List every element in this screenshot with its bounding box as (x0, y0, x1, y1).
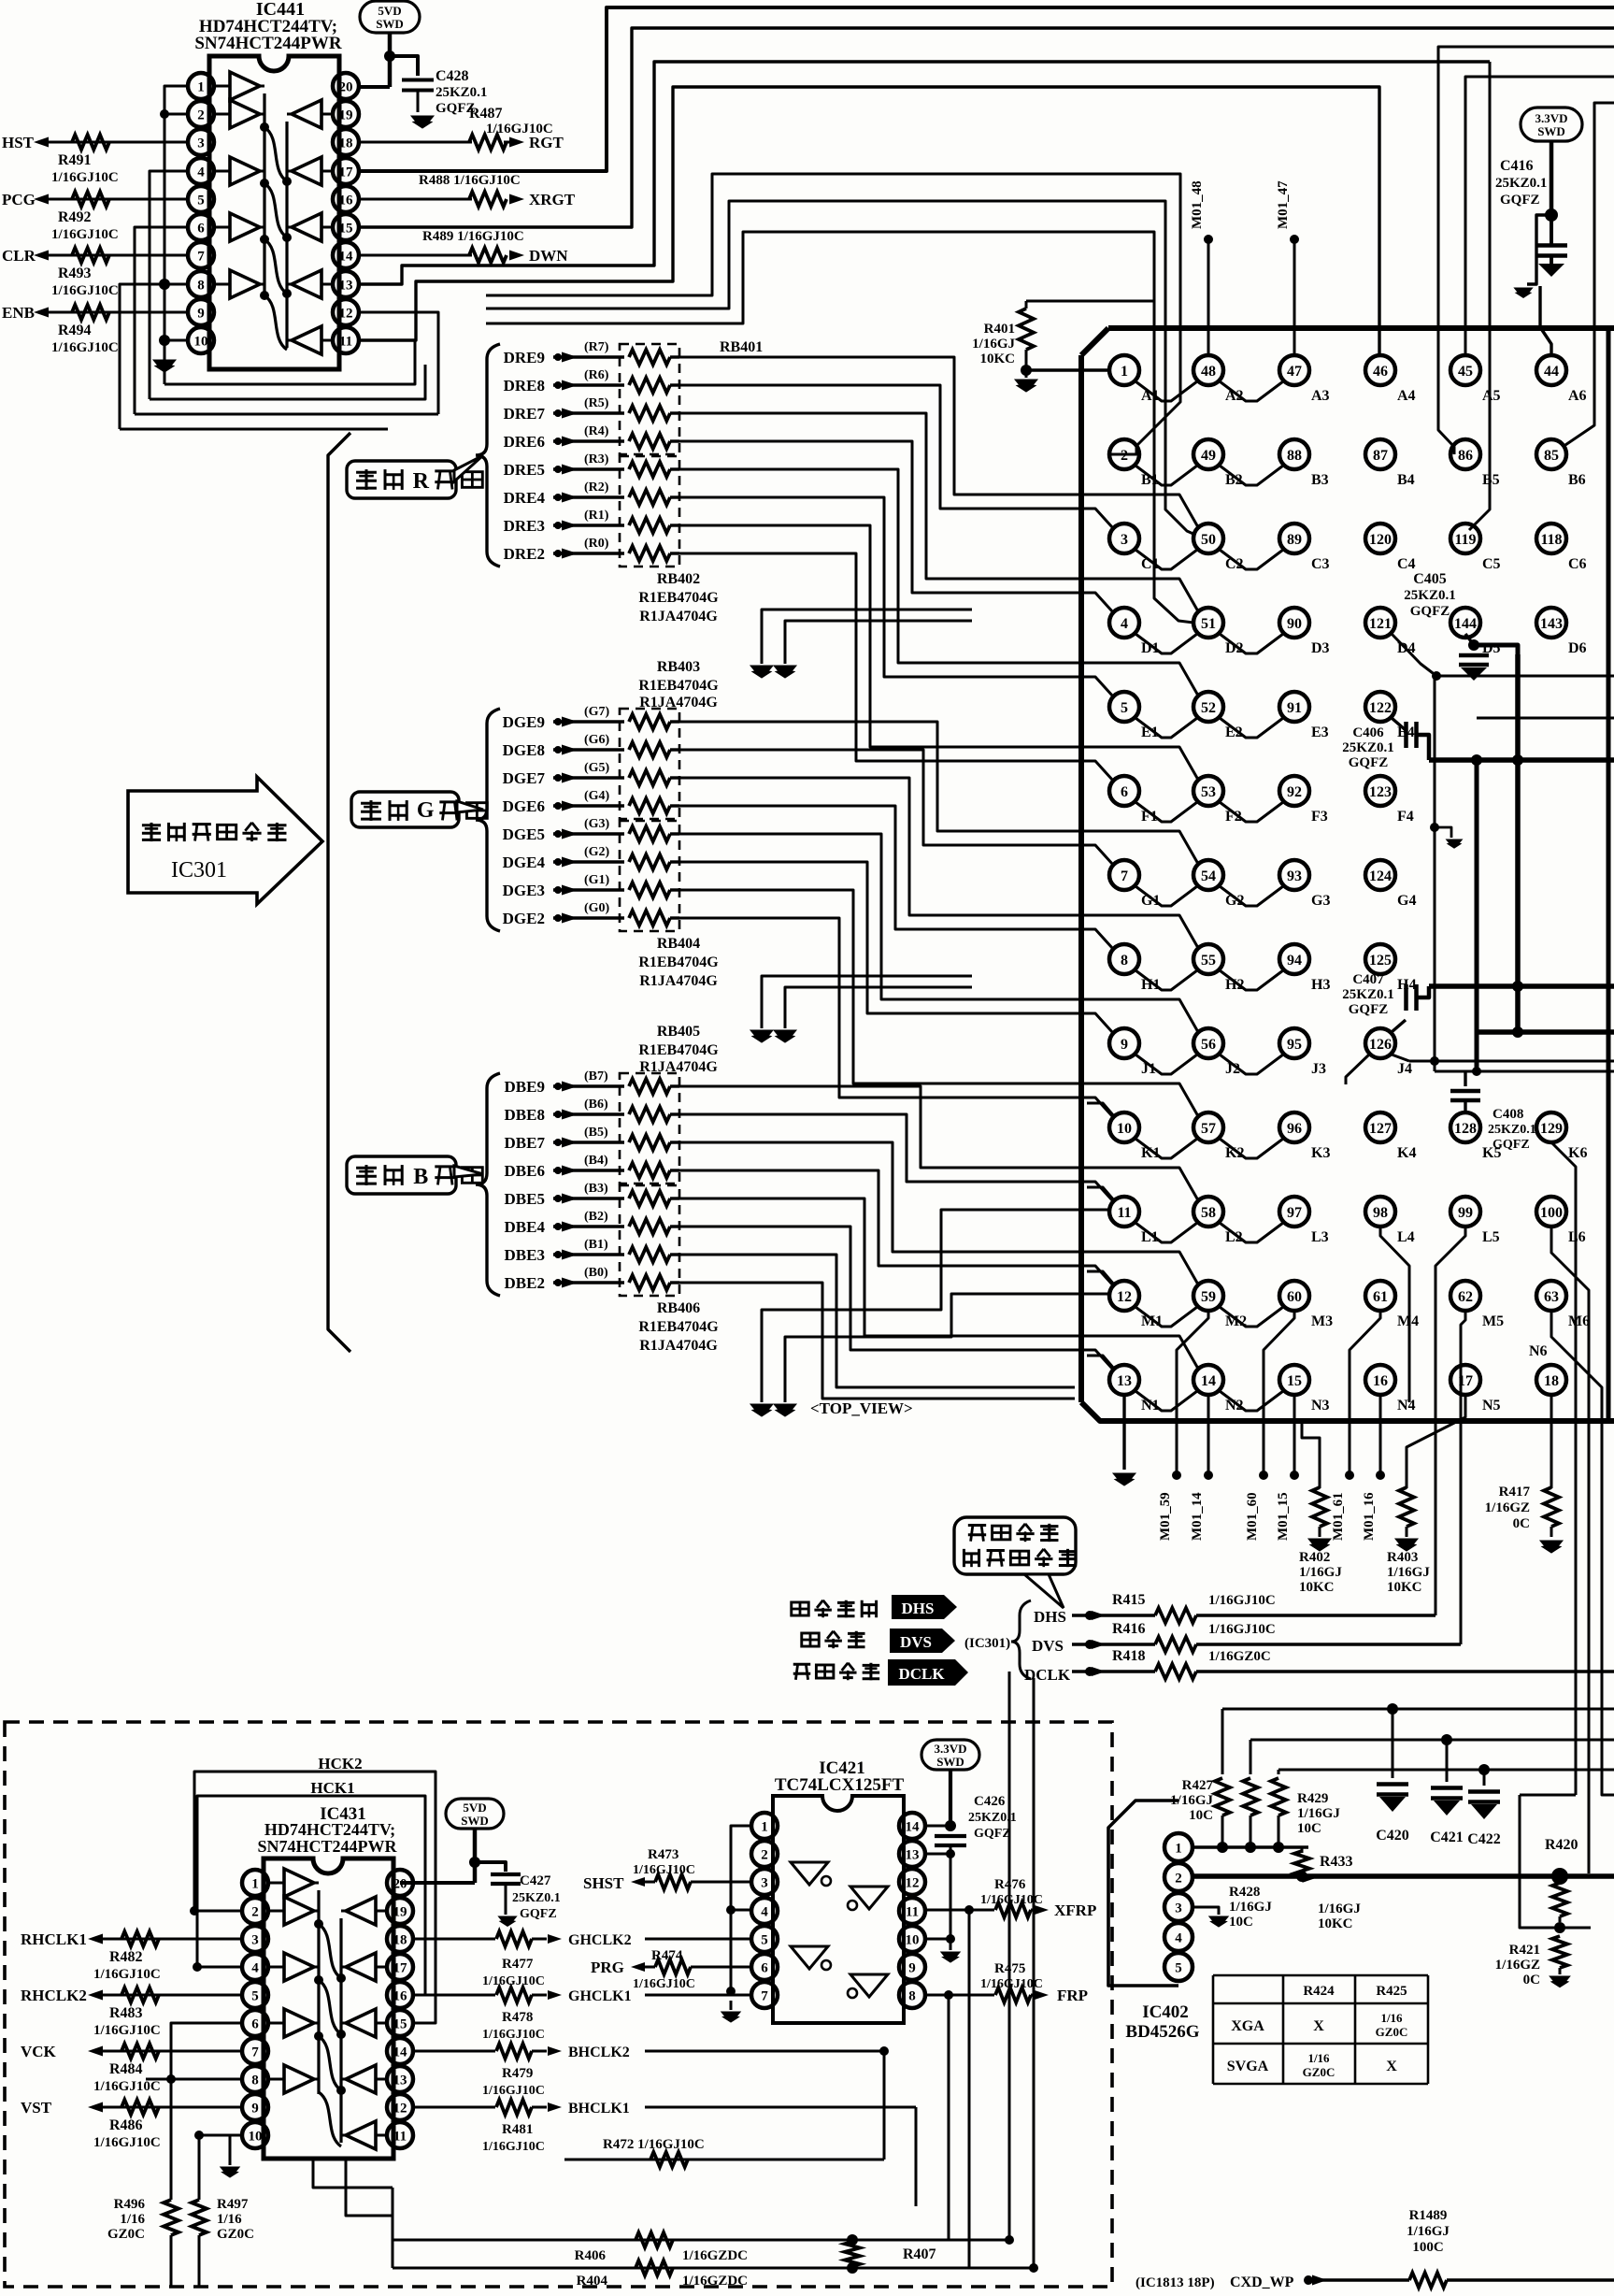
bus corner y82 to A5 (1465, 77, 1614, 356)
svg-text:8: 8 (908, 1988, 916, 2003)
IC431 pin 13 (387, 2066, 413, 2092)
svg-text:R493: R493 (58, 265, 92, 281)
rail line y1146 (1435, 1070, 1614, 1073)
svg-text:R478: R478 (502, 2010, 533, 2025)
connector pin 57 (K2) (1193, 1112, 1223, 1142)
svg-text:52: 52 (1201, 700, 1216, 716)
IC441 pin 17 (333, 158, 359, 184)
resistor RB405/406 element 6 (629, 1219, 670, 1234)
svg-text:RB406: RB406 (657, 1300, 700, 1316)
IC421 pin 1 (751, 1813, 778, 1839)
svg-text:3: 3 (761, 1875, 768, 1890)
svg-text:M01_16: M01_16 (1362, 1492, 1377, 1541)
svg-text:(R3): (R3) (584, 452, 609, 466)
svg-text:95: 95 (1287, 1037, 1302, 1053)
resistor RB405/406 element 5 (629, 1191, 670, 1206)
net BHCLK2 row / resistor R479 (414, 2050, 495, 2053)
svg-text:F4: F4 (1397, 809, 1414, 825)
svg-text:12: 12 (906, 1875, 920, 1890)
resistor R486 (121, 2100, 159, 2115)
svg-text:61: 61 (1373, 1289, 1388, 1305)
wire to A6 (1540, 286, 1551, 356)
svg-text:58: 58 (1201, 1205, 1216, 1221)
svg-text:8: 8 (197, 278, 205, 293)
IC431 pin 1 (242, 1870, 268, 1896)
IC431 pin 8 (242, 2066, 268, 2092)
svg-text:119: 119 (1454, 532, 1476, 548)
svg-text:25KZ0.1: 25KZ0.1 (1404, 588, 1455, 603)
connector pin 2 (B1) (1109, 439, 1139, 469)
svg-text:(G6): (G6) (584, 733, 610, 747)
bus line pin15 to top right (359, 28, 1614, 227)
IC441 pin 12 (333, 299, 359, 325)
connector pin 124 (G4) (1365, 860, 1395, 890)
svg-text:R496: R496 (114, 2197, 146, 2212)
brace DHS group (1011, 1600, 1031, 1679)
IC431 internal rails (317, 1890, 320, 2094)
svg-text:C3: C3 (1311, 556, 1330, 572)
capacitor C426 + 3.3VD wire (949, 1770, 952, 1826)
svg-text:5VD: 5VD (463, 1801, 486, 1815)
svg-text:10: 10 (194, 334, 208, 349)
capacitor C420 (1392, 1709, 1394, 1778)
svg-text:127: 127 (1369, 1121, 1392, 1137)
connector pin 60 (M3) (1279, 1281, 1309, 1311)
svg-text:C4: C4 (1397, 556, 1416, 572)
net M01_59 wire (1177, 1311, 1208, 1475)
IC402 pin 1 (1164, 1833, 1193, 1861)
IC431 pin 15 (387, 2010, 413, 2036)
svg-text:R473: R473 (648, 1847, 678, 1862)
svg-text:R1EB4704G: R1EB4704G (638, 678, 719, 694)
wire L4 M4 down (1380, 1227, 1409, 1402)
svg-text:2: 2 (1121, 448, 1128, 464)
svg-text:53: 53 (1201, 784, 1216, 800)
connector pin 129 (K6) (1536, 1112, 1566, 1142)
vertical x1535 service (1434, 676, 1436, 1071)
connector pin 47 (A3) (1279, 355, 1309, 385)
svg-text:10C: 10C (1297, 1821, 1321, 1836)
svg-text:25KZ0.1: 25KZ0.1 (436, 85, 487, 100)
IC441 pin 11 (333, 327, 359, 353)
connector pin 125 (H4) (1365, 944, 1395, 974)
svg-text:(IC301): (IC301) (964, 1636, 1010, 1651)
svg-text:BHCLK1: BHCLK1 (568, 2101, 630, 2117)
capacitor C408 (1464, 1071, 1466, 1086)
net M01_15 wire (1293, 1395, 1296, 1475)
svg-text:RHCLK1: RHCLK1 (21, 1930, 87, 1948)
svg-text:99: 99 (1458, 1205, 1473, 1221)
grid col1 entry stubs (1087, 1103, 1114, 1116)
svg-text:14: 14 (393, 2045, 408, 2059)
connector pin 86 (B5) (1450, 439, 1480, 469)
gnd hook pair above B group (762, 976, 972, 1028)
net R472 row (564, 2159, 884, 2161)
capacitor C422 (1483, 1770, 1486, 1786)
resistor R421 (1552, 1936, 1567, 1968)
svg-text:10KC: 10KC (980, 352, 1016, 366)
callout box digital B signal (347, 1156, 456, 1194)
svg-text:6: 6 (1121, 784, 1128, 800)
svg-text:R416: R416 (1112, 1621, 1146, 1637)
svg-text:N5: N5 (1482, 1398, 1501, 1413)
power 5VD SWD (IC431) (446, 1799, 504, 1829)
flag DCLK (888, 1659, 968, 1686)
wire M5 to DVS corner (1461, 1311, 1465, 1644)
resistor R492 (72, 192, 109, 207)
svg-text:R474: R474 (651, 1948, 683, 1963)
connector pin 51 (D2) (1193, 608, 1223, 638)
balloon callout sync label (954, 1517, 1076, 1574)
svg-text:85: 85 (1544, 448, 1559, 464)
connector pin 14 (N2) (1193, 1365, 1223, 1395)
connector pin 122 (E4) (1365, 692, 1395, 722)
svg-text:3: 3 (1121, 532, 1128, 548)
svg-text:DCLK: DCLK (1024, 1666, 1071, 1684)
gnd hook pair above G group (762, 610, 972, 664)
svg-text:M01_59: M01_59 (1158, 1492, 1173, 1541)
connector pin 63 (M6) (1536, 1281, 1566, 1311)
label digital signal CJK (792, 1602, 808, 1615)
svg-text:(B4): (B4) (584, 1154, 608, 1168)
net GHCLK1 to IC421 (645, 1994, 751, 1997)
svg-text:57: 57 (1201, 1121, 1216, 1137)
svg-text:R491: R491 (58, 152, 92, 168)
svg-text:1: 1 (1121, 364, 1128, 380)
svg-text:R420: R420 (1545, 1837, 1578, 1853)
svg-text:DBE9: DBE9 (505, 1078, 545, 1096)
svg-text:1/16GJ10C: 1/16GJ10C (1208, 1622, 1276, 1637)
callout pointer G (457, 801, 483, 812)
wire x1594 down to C5 (1469, 62, 1490, 530)
resistor RB403/404 element 4 (629, 798, 670, 813)
wire M6 down (1551, 1311, 1614, 1795)
svg-text:R425: R425 (1376, 1984, 1407, 1999)
svg-text:R482: R482 (109, 1949, 143, 1965)
svg-text:A6: A6 (1568, 388, 1587, 404)
balloon tail (1024, 1574, 1064, 1608)
connector pin 92 (F3) (1279, 776, 1309, 806)
svg-text:GZ0C: GZ0C (217, 2227, 254, 2242)
svg-text:14: 14 (1201, 1373, 1216, 1389)
svg-text:SWD: SWD (461, 1814, 489, 1828)
svg-text:HCK1: HCK1 (310, 1779, 354, 1797)
svg-text:2: 2 (761, 1847, 768, 1862)
IC441 pin 16 (333, 186, 359, 212)
connector pin 126 (J4) (1365, 1028, 1395, 1058)
svg-text:HD74HCT244TV;: HD74HCT244TV; (264, 1820, 395, 1839)
IC441 pin 6 (188, 214, 214, 240)
svg-text:10KC: 10KC (1387, 1580, 1422, 1595)
svg-text:F3: F3 (1311, 809, 1328, 825)
net M01_60 wire (1264, 1311, 1294, 1475)
svg-text:97: 97 (1287, 1205, 1302, 1221)
table R424/R425 (1213, 1974, 1428, 1977)
svg-text:PRG: PRG (591, 1959, 624, 1976)
svg-text:5: 5 (1175, 1960, 1182, 1975)
IC421 buffers (791, 1862, 828, 1885)
svg-text:RB402: RB402 (657, 571, 700, 587)
svg-text:8: 8 (1121, 953, 1128, 969)
IC431 pin 7 (242, 2038, 268, 2064)
svg-text:M01_60: M01_60 (1245, 1492, 1260, 1541)
svg-text:86: 86 (1458, 448, 1473, 464)
resistor RB401/402 element 8 (629, 546, 670, 561)
vertical heavy x1580 (1475, 760, 1479, 1071)
svg-text:9: 9 (251, 2101, 259, 2116)
connector pin 123 (F4) (1365, 776, 1395, 806)
capacitor C416 (1550, 141, 1554, 215)
svg-text:1: 1 (761, 1819, 768, 1834)
svg-text:1/16GJ: 1/16GJ (1299, 1565, 1342, 1580)
svg-text:DRE4: DRE4 (504, 489, 546, 507)
svg-text:25KZ0.1: 25KZ0.1 (1342, 987, 1393, 1002)
svg-text:BD4526G: BD4526G (1125, 2022, 1199, 2042)
net M01_47 wire (1293, 239, 1296, 355)
connector pin 90 (D3) (1279, 608, 1309, 638)
resistor RB403/404 element 7 (629, 883, 670, 897)
IC421 body (773, 1796, 904, 2023)
IC431 pin 10 (242, 2122, 268, 2148)
svg-text:13: 13 (393, 2073, 407, 2088)
svg-text:18: 18 (393, 1932, 407, 1947)
svg-text:XRGT: XRGT (529, 191, 576, 208)
IC421 pin 2 (751, 1841, 778, 1867)
net FRP / resistor R475 (925, 1994, 994, 1997)
svg-text:C422: C422 (1467, 1831, 1501, 1847)
svg-text:R477: R477 (502, 1957, 534, 1972)
svg-text:C408: C408 (1493, 1107, 1523, 1122)
net XFRP / resistor R476 (925, 1909, 994, 1912)
svg-text:89: 89 (1287, 532, 1302, 548)
svg-text:1/16GJ: 1/16GJ (1229, 1900, 1272, 1915)
svg-text:C421: C421 (1430, 1830, 1464, 1845)
svg-text:R407: R407 (903, 2246, 936, 2262)
connector pin 58 (L2) (1193, 1197, 1223, 1227)
svg-text:R1EB4704G: R1EB4704G (638, 590, 719, 606)
svg-text:144: 144 (1454, 616, 1477, 632)
svg-text:GQFZ: GQFZ (974, 1827, 1011, 1841)
svg-text:7: 7 (1121, 868, 1128, 884)
rail heavy y813 (1429, 757, 1614, 763)
svg-text:R486: R486 (109, 2117, 143, 2133)
svg-text:1/16GJ10C: 1/16GJ10C (93, 2135, 161, 2150)
wire pin12 to nest (359, 312, 438, 414)
svg-text:5: 5 (251, 1988, 259, 2003)
svg-text:143: 143 (1540, 616, 1563, 632)
svg-text:SWD: SWD (1537, 124, 1565, 138)
svg-text:(B5): (B5) (584, 1126, 608, 1140)
connector pin 55 (H2) (1193, 944, 1223, 974)
svg-text:K6: K6 (1568, 1145, 1587, 1161)
svg-text:(B0): (B0) (584, 1266, 608, 1280)
svg-text:15: 15 (1287, 1373, 1302, 1389)
connector heavy outline right (1607, 328, 1611, 1421)
resistor RB401/402 element 7 (629, 518, 670, 533)
callout pointer B (454, 1166, 483, 1177)
svg-text:46: 46 (1373, 364, 1388, 380)
svg-text:DGE6: DGE6 (503, 797, 545, 815)
svg-text:1: 1 (1175, 1841, 1182, 1856)
svg-text:1/16GJ10C: 1/16GJ10C (633, 1863, 695, 1877)
svg-text:5: 5 (197, 193, 205, 208)
svg-text:6: 6 (761, 1960, 768, 1975)
svg-text:3: 3 (251, 1932, 259, 1947)
resistor RB403/404 element 5 (629, 826, 670, 841)
resistor R403 (1407, 1395, 1465, 1488)
connector pin 96 (K3) (1279, 1112, 1309, 1142)
svg-text:16: 16 (1373, 1373, 1388, 1389)
svg-text:C407: C407 (1352, 972, 1384, 987)
svg-text:1: 1 (251, 1876, 259, 1891)
svg-text:1/16GJ10C: 1/16GJ10C (486, 122, 553, 136)
rail line y723 (1432, 671, 1441, 681)
net M01_14 wire (1207, 1395, 1210, 1475)
connector pin 144 (D5) (1450, 608, 1480, 638)
svg-text:(B2): (B2) (584, 1210, 608, 1224)
brace RB401/402 (476, 344, 500, 567)
svg-text:1/16GZDC: 1/16GZDC (682, 2274, 748, 2289)
connector pin 127 (K4) (1365, 1112, 1395, 1142)
svg-text:G2: G2 (1225, 893, 1244, 909)
capacitor C428 + 5VD wire (388, 33, 393, 87)
svg-text:9: 9 (1121, 1037, 1128, 1053)
bus line L7 (486, 232, 1193, 623)
svg-text:DGE2: DGE2 (503, 910, 545, 927)
svg-text:10C: 10C (1189, 1808, 1213, 1823)
brace RB405/406 (476, 1073, 500, 1296)
svg-text:G: G (417, 798, 435, 823)
svg-text:GQFZ: GQFZ (1349, 1002, 1389, 1017)
svg-text:92: 92 (1287, 784, 1302, 800)
IC431 pin 5 (242, 1982, 268, 2008)
svg-text:R479: R479 (502, 2066, 533, 2081)
svg-text:R492: R492 (58, 209, 92, 225)
resistor R483 (121, 1987, 159, 2002)
svg-text:R489 1/16GJ10C: R489 1/16GJ10C (422, 229, 524, 244)
connector pin 120 (C4) (1365, 524, 1395, 553)
ground IC441 left (153, 360, 176, 372)
svg-text:25KZ0.1: 25KZ0.1 (1342, 740, 1393, 755)
svg-text:1/16GJ10C: 1/16GJ10C (93, 1967, 161, 1982)
svg-text:SHST: SHST (583, 1874, 624, 1892)
svg-text:1/16GJ: 1/16GJ (1387, 1565, 1430, 1580)
svg-text:96: 96 (1287, 1121, 1302, 1137)
svg-text:13: 13 (1117, 1373, 1132, 1389)
svg-text:N4: N4 (1397, 1398, 1416, 1413)
svg-text:(R5): (R5) (584, 396, 609, 410)
IC421 pin 8 (899, 1982, 925, 2008)
svg-text:62: 62 (1458, 1289, 1473, 1305)
svg-text:129: 129 (1540, 1121, 1563, 1137)
resistor R428 col (1243, 1778, 1258, 1815)
line y1828 to right (1222, 1708, 1614, 1711)
IC431 pin 20 (387, 1870, 413, 1896)
svg-text:11: 11 (906, 1904, 919, 1919)
svg-text:54: 54 (1201, 868, 1216, 884)
svg-text:H2: H2 (1225, 977, 1244, 993)
svg-text:GQFZ: GQFZ (520, 1907, 557, 1921)
svg-text:L4: L4 (1397, 1229, 1415, 1245)
resistor R493 (72, 248, 109, 263)
svg-text:C6: C6 (1568, 556, 1587, 572)
bus corner y50 (1438, 47, 1614, 454)
wire under-IC nest (164, 340, 415, 384)
svg-text:0C: 0C (1523, 1973, 1540, 1987)
IC402 outline (1108, 1801, 1178, 1986)
connector pin 88 (B3) (1279, 439, 1309, 469)
svg-text:126: 126 (1369, 1037, 1392, 1053)
bus corner y110 to B6 (1563, 103, 1614, 447)
svg-text:H1: H1 (1141, 977, 1160, 993)
svg-text:DHS: DHS (1034, 1608, 1066, 1626)
bus line pin11 to A4 (359, 87, 1379, 356)
connector pin 52 (E2) (1193, 692, 1223, 722)
IC441 pin 14 (333, 242, 359, 268)
wire J4 diag (1392, 1055, 1409, 1061)
IC441 pin 8 (188, 271, 214, 297)
svg-text:DBE8: DBE8 (505, 1106, 545, 1124)
svg-text:(IC1813 18P): (IC1813 18P) (1136, 2275, 1215, 2290)
connector pin 9 (J1) (1109, 1028, 1139, 1058)
svg-text:D3: D3 (1311, 640, 1330, 656)
connector pin 15 (N3) (1279, 1365, 1309, 1395)
connector pin 54 (G2) (1193, 860, 1223, 890)
svg-text:RB404: RB404 (657, 936, 700, 952)
IC431 pin 19 (387, 1898, 413, 1924)
connector pin 48 (A2) (1193, 355, 1223, 385)
wire left nest IC441 (164, 86, 188, 384)
svg-text:DBE3: DBE3 (505, 1246, 545, 1264)
connector pin 143 (D6) (1536, 608, 1566, 638)
connector pin 5 (E1) (1109, 692, 1139, 722)
svg-text:6: 6 (251, 2016, 259, 2031)
svg-text:J4: J4 (1397, 1061, 1412, 1077)
net M01_16 wire (1379, 1395, 1382, 1475)
svg-text:17: 17 (339, 165, 354, 179)
svg-text:1/16GJ10C: 1/16GJ10C (51, 340, 119, 355)
svg-text:(B6): (B6) (584, 1098, 608, 1112)
IC431 pin 17 (387, 1954, 413, 1980)
IC421 pin 3 (751, 1869, 778, 1895)
svg-text:R433: R433 (1320, 1854, 1353, 1870)
connector pin 119 (C5) (1450, 524, 1480, 553)
big left bracket (328, 433, 350, 1352)
flag DHS (892, 1595, 957, 1619)
svg-text:128: 128 (1454, 1121, 1477, 1137)
svg-text:4: 4 (1175, 1930, 1182, 1945)
IC402 pin 2 (1164, 1863, 1193, 1891)
line y1861 to right (1250, 1739, 1614, 1742)
svg-text:47: 47 (1287, 364, 1302, 380)
svg-text:DRE5: DRE5 (504, 461, 545, 479)
svg-text:(R7): (R7) (584, 340, 609, 354)
svg-text:A5: A5 (1482, 388, 1501, 404)
resistor network dashed box RB401/402 lower (620, 456, 679, 567)
svg-text:120: 120 (1369, 532, 1392, 548)
svg-text:(R4): (R4) (584, 424, 609, 438)
svg-text:(G2): (G2) (584, 845, 610, 859)
svg-text:13: 13 (906, 1847, 920, 1862)
svg-text:10: 10 (906, 1932, 920, 1947)
svg-text:DBE5: DBE5 (505, 1190, 545, 1208)
connector heavy outline left (1078, 355, 1084, 1402)
svg-text:DGE8: DGE8 (503, 741, 545, 759)
svg-text:K3: K3 (1311, 1145, 1330, 1161)
resistor R433 (1301, 1847, 1304, 1853)
svg-text:G1: G1 (1141, 893, 1160, 909)
svg-text:1/16GJ10C: 1/16GJ10C (93, 2023, 161, 2038)
